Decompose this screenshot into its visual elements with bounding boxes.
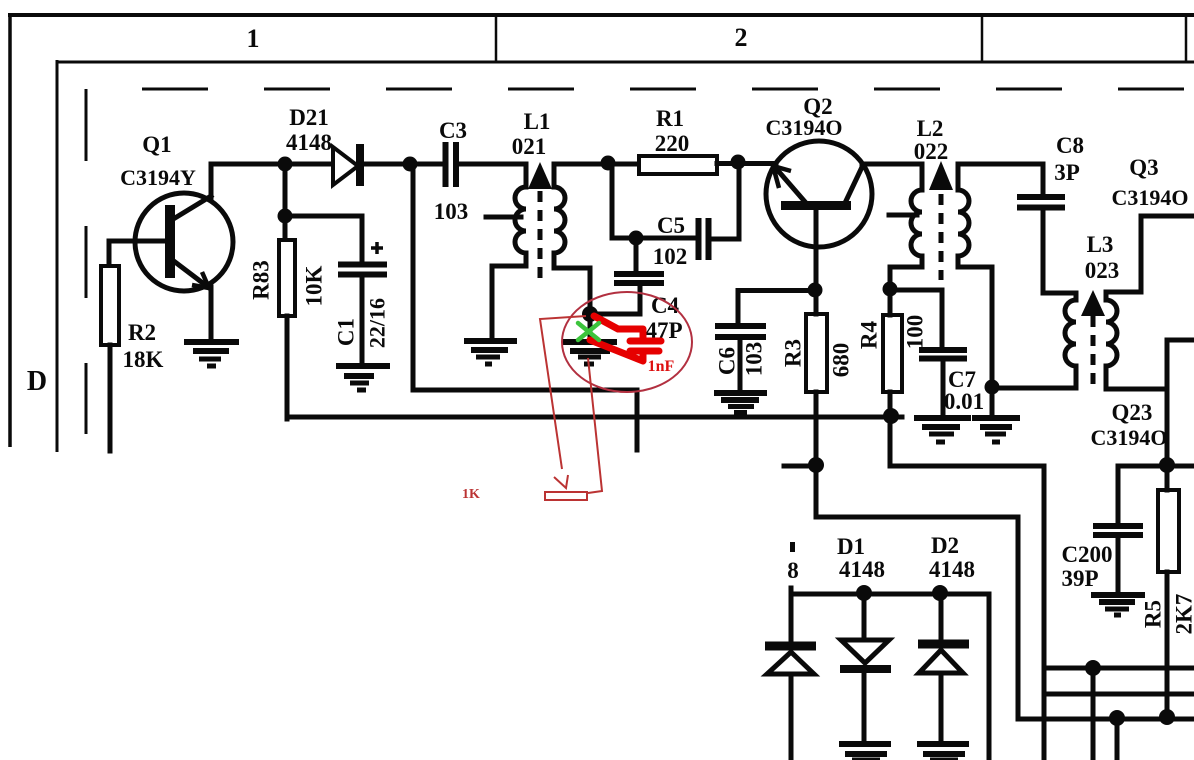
node dot R83 branch bbox=[278, 209, 293, 224]
svg-text:22/16: 22/16 bbox=[365, 298, 390, 348]
svg-text:2: 2 bbox=[735, 23, 748, 52]
svg-text:L1: L1 bbox=[524, 109, 551, 134]
label C3194O of Q3 bbox=[1112, 185, 1189, 210]
diode D1 leads bbox=[862, 593, 867, 742]
inner frame left line bbox=[56, 60, 59, 452]
wire L1 to R1 node bbox=[554, 162, 639, 167]
wire R2 bottom lead bbox=[108, 345, 113, 451]
ground under L1 secondary node bbox=[562, 342, 617, 364]
svg-text:C5: C5 bbox=[657, 213, 685, 238]
label 47P bbox=[645, 318, 682, 343]
resistor R4 bbox=[883, 315, 902, 392]
wire node down to ground bbox=[588, 314, 593, 341]
wire vertical from C3 node down to bus A bbox=[413, 164, 637, 450]
svg-text:680: 680 bbox=[829, 343, 854, 378]
svg-text:10K: 10K bbox=[302, 265, 327, 306]
diode D1 bbox=[840, 640, 891, 669]
svg-text:R5: R5 bbox=[1141, 600, 1166, 628]
svg-text:100: 100 bbox=[903, 315, 928, 350]
inductor L1 tuning arrow bbox=[528, 162, 552, 189]
text fragment cut label bbox=[787, 542, 799, 583]
wire R3 bottom lead through bus bbox=[814, 392, 819, 465]
border frame outer top line bbox=[8, 13, 1194, 17]
ground under C200 bbox=[1091, 595, 1145, 615]
wire C3 to L1 bbox=[459, 162, 526, 167]
label Q3 bbox=[1129, 155, 1158, 180]
svg-text:39P: 39P bbox=[1061, 566, 1098, 591]
wire R1 right to Q2 bbox=[717, 161, 776, 166]
ground under Q1 bbox=[184, 342, 239, 366]
wire L2 secondary to ground bbox=[990, 387, 995, 418]
wire L2 secondary top to C8 bbox=[958, 164, 1043, 194]
transistor Q2 bbox=[766, 141, 872, 247]
ground under C1 bbox=[336, 366, 390, 390]
wire L3 secondary top to Q3 bbox=[1106, 216, 1194, 292]
label R83 rotated bbox=[249, 260, 274, 300]
label C7 bbox=[948, 367, 976, 392]
wire Q23 emitter to edge bbox=[1167, 338, 1194, 343]
wire R3 top lead bbox=[814, 290, 819, 314]
svg-text:R4: R4 bbox=[857, 320, 882, 349]
capacitor C200 bbox=[1093, 526, 1143, 535]
node dot Q2 base bbox=[808, 283, 823, 298]
svg-text:R83: R83 bbox=[249, 260, 274, 300]
node dot L2 secondary bottom bbox=[985, 380, 1000, 395]
label 4148 under D21 bbox=[286, 130, 332, 155]
wire R4 bottom lead bbox=[888, 392, 893, 466]
label 100 rotated bbox=[903, 315, 928, 350]
capacitor C5 bbox=[699, 218, 709, 260]
resistor R2 bbox=[101, 266, 119, 345]
wire C5 loop right side bbox=[711, 162, 739, 239]
svg-text:103: 103 bbox=[742, 342, 767, 377]
svg-text:220: 220 bbox=[655, 131, 690, 156]
label 2K7 rotated bbox=[1172, 594, 1194, 635]
label 39P bbox=[1061, 566, 1098, 591]
svg-text:C200: C200 bbox=[1061, 542, 1112, 567]
wire C7 bottom lead bbox=[941, 360, 946, 417]
label C200 bbox=[1061, 542, 1112, 567]
wire C6 bottom lead bbox=[738, 339, 743, 392]
label 4148 under D1 bbox=[839, 557, 885, 582]
wire base node to C6 bbox=[738, 291, 815, 324]
wire Q1 collector bbox=[209, 164, 214, 199]
svg-text:8: 8 bbox=[787, 558, 799, 583]
ground under C7 on bus bbox=[914, 418, 971, 442]
red arrowhead bbox=[554, 475, 568, 488]
ground under L2 secondary bbox=[972, 418, 1020, 442]
wire Q1 base bbox=[109, 241, 165, 266]
diode DA leads bbox=[789, 588, 794, 760]
wire R83 bottom to bus bbox=[285, 316, 290, 419]
label 0.01 bbox=[944, 389, 984, 414]
capacitor C8 bbox=[1017, 197, 1065, 208]
wire R4 branch to lower right bbox=[890, 466, 1044, 760]
wire R5 bottom lead bbox=[1165, 572, 1170, 717]
L2 tap stub bbox=[889, 213, 917, 218]
transistor Q1 bbox=[135, 193, 233, 291]
inductor L2 left winding bbox=[890, 164, 922, 289]
svg-text:1: 1 bbox=[247, 24, 260, 53]
wire Q2 collector to L2 bbox=[862, 162, 922, 167]
wire L2 secondary bottom to L3 bbox=[992, 386, 1076, 391]
label R3 rotated bbox=[781, 339, 806, 367]
capacitor C6 bbox=[715, 326, 766, 337]
wire node to right edge bbox=[1167, 464, 1194, 469]
red annotation line to 1K right bbox=[588, 358, 602, 493]
svg-text:L2: L2 bbox=[917, 116, 944, 141]
label C4 bbox=[651, 293, 680, 318]
label C3194O of Q23 bbox=[1091, 425, 1168, 450]
ground under D1 bbox=[839, 744, 891, 760]
svg-text:C6: C6 bbox=[715, 347, 740, 375]
border frame outer left line bbox=[8, 13, 12, 447]
svg-text:D2: D2 bbox=[931, 533, 959, 558]
svg-text:R3: R3 bbox=[781, 339, 806, 367]
label R1 bbox=[656, 106, 684, 131]
label D21 bbox=[289, 105, 329, 130]
diode D2 bbox=[918, 644, 969, 673]
svg-text:102: 102 bbox=[653, 244, 688, 269]
label D2 bbox=[931, 533, 959, 558]
resistor R83 bbox=[279, 240, 295, 316]
svg-text:R1: R1 bbox=[656, 106, 684, 131]
label Q2 bbox=[803, 94, 832, 119]
label C8 bbox=[1056, 133, 1084, 158]
label 10K rotated bbox=[302, 265, 327, 306]
svg-text:103: 103 bbox=[434, 199, 469, 224]
svg-text:4148: 4148 bbox=[839, 557, 885, 582]
svg-text:L3: L3 bbox=[1087, 232, 1114, 257]
label L2 bbox=[917, 116, 944, 141]
svg-text:C3194Y: C3194Y bbox=[120, 165, 196, 190]
label 18K bbox=[123, 347, 164, 372]
label R4 rotated bbox=[857, 320, 882, 349]
svg-text:Q3: Q3 bbox=[1129, 155, 1158, 180]
label 023 bbox=[1085, 258, 1120, 283]
inductor L2 tuning arrow bbox=[929, 161, 953, 190]
svg-text:Q1: Q1 bbox=[142, 132, 171, 157]
diode D2 leads bbox=[939, 593, 944, 742]
svg-text:R2: R2 bbox=[128, 320, 156, 345]
label 220 bbox=[655, 131, 690, 156]
ground under D2 bbox=[917, 744, 969, 760]
svg-text:C1: C1 bbox=[334, 318, 359, 346]
label C6 rotated bbox=[715, 347, 740, 375]
svg-text:4148: 4148 bbox=[286, 130, 332, 155]
node dot on line E right bbox=[1159, 709, 1175, 725]
red label 1nF bbox=[648, 358, 675, 375]
node dot Q23/R5/C200 bbox=[1159, 457, 1175, 473]
node dot bus R4 bbox=[883, 408, 899, 424]
svg-text:022: 022 bbox=[914, 139, 949, 164]
label L1 bbox=[524, 109, 551, 134]
inductor L1 left winding bbox=[492, 164, 526, 341]
wire C8 bottom to L3 top bbox=[1043, 210, 1076, 293]
node dot D2 on bus bbox=[932, 585, 948, 601]
wire C7 branch top bbox=[890, 290, 942, 348]
wire Q23 collector vertical bbox=[1165, 340, 1170, 465]
row letter D bbox=[27, 366, 47, 397]
wire Q1 emitter down bbox=[209, 287, 214, 341]
svg-text:3P: 3P bbox=[1054, 160, 1080, 185]
node dot C5/C4 branch bbox=[629, 231, 644, 246]
wire line C bbox=[1044, 666, 1194, 671]
svg-text:D: D bbox=[27, 366, 47, 397]
wire R5 top lead bbox=[1165, 465, 1170, 490]
inductor L3 core dashed bbox=[1091, 316, 1096, 384]
svg-text:2K7: 2K7 bbox=[1172, 594, 1194, 635]
inductor L3 left winding bbox=[1065, 293, 1076, 388]
svg-text:C8: C8 bbox=[1056, 133, 1084, 158]
red ellipse annotation bbox=[562, 292, 692, 392]
wire C200 bottom lead bbox=[1116, 537, 1121, 594]
label Q23 bbox=[1112, 400, 1153, 425]
resistor R3 bbox=[806, 314, 827, 392]
red label 1K bbox=[462, 487, 480, 502]
title strip divider tick 3 bbox=[1185, 14, 1188, 63]
svg-text:C3194O: C3194O bbox=[766, 115, 843, 140]
resistor R1 bbox=[639, 156, 717, 174]
title strip inner line / inner frame top bbox=[57, 61, 1194, 64]
label R5 rotated bbox=[1141, 600, 1166, 628]
label Q1 bbox=[142, 132, 171, 157]
inductor L3 tuning arrow bbox=[1081, 290, 1105, 316]
node dot D1 on bus bbox=[856, 585, 872, 601]
wire C4 bottom lead bbox=[638, 286, 643, 314]
diode DA bbox=[765, 646, 816, 674]
label D1 bbox=[837, 534, 865, 559]
red capacitor annotation 1nF bbox=[590, 316, 661, 361]
ground under C6 bbox=[714, 393, 767, 413]
resistor R5 bbox=[1158, 490, 1179, 572]
svg-text:D21: D21 bbox=[289, 105, 329, 130]
wire C1 bottom lead bbox=[360, 277, 365, 366]
dashed module boundary vertical bbox=[85, 89, 88, 434]
node dot left of R1 bbox=[601, 156, 616, 171]
wire vertical below line E bbox=[1115, 718, 1120, 760]
svg-text:D1: D1 bbox=[837, 534, 865, 559]
label 021 bbox=[512, 134, 547, 159]
node dot on line E left bbox=[1109, 710, 1125, 726]
label C3194Y bbox=[120, 165, 196, 190]
node dot L1 secondary bottom bbox=[582, 306, 598, 322]
zone number 1 bbox=[247, 24, 260, 53]
diode bus wire bbox=[792, 594, 989, 760]
label C1 rotated bbox=[334, 318, 359, 346]
wire vertical from line C node bbox=[1091, 668, 1096, 760]
node dot on line C bbox=[1085, 660, 1101, 676]
inductor L1 right winding bbox=[554, 164, 590, 314]
wire line D bbox=[1044, 692, 1194, 697]
green X mark bbox=[578, 323, 599, 340]
capacitor C1 electrolytic bbox=[338, 242, 387, 275]
red 1K resistor rectangle bbox=[545, 492, 587, 500]
label 22/16 rotated bbox=[365, 298, 390, 348]
label R2 bbox=[128, 320, 156, 345]
node dot right of R1 bbox=[731, 155, 746, 170]
wire stub left of node bbox=[784, 464, 816, 469]
ground under L1 bbox=[464, 341, 517, 364]
label 022 bbox=[914, 139, 949, 164]
wire Q2 base lead bbox=[814, 210, 819, 290]
svg-text:023: 023 bbox=[1085, 258, 1120, 283]
wire main collector rail to D21 bbox=[211, 162, 333, 167]
label 3P bbox=[1054, 160, 1080, 185]
wire branch down from D21 anode node bbox=[283, 164, 288, 240]
zone number 2 bbox=[735, 23, 748, 52]
inductor L2 core dashed bbox=[939, 194, 944, 280]
wire C4 top lead bbox=[634, 238, 639, 271]
label 4148 under D2 bbox=[929, 557, 975, 582]
wire to C1 top bbox=[285, 216, 362, 262]
dashed module boundary horizontal bbox=[86, 88, 1194, 91]
label 680 rotated bbox=[829, 343, 854, 378]
svg-text:Q23: Q23 bbox=[1112, 400, 1153, 425]
node dot at D21 branch bbox=[278, 157, 293, 172]
svg-text:1K: 1K bbox=[462, 487, 480, 502]
svg-text:1nF: 1nF bbox=[648, 358, 675, 375]
label 103 under C3 bbox=[434, 199, 469, 224]
svg-text:C3194O: C3194O bbox=[1091, 425, 1168, 450]
svg-text:18K: 18K bbox=[123, 347, 164, 372]
label L3 bbox=[1087, 232, 1114, 257]
svg-text:C3: C3 bbox=[439, 118, 467, 143]
label 103 rotated bbox=[742, 342, 767, 377]
wire node to C4 bottom bbox=[590, 312, 640, 317]
title strip divider tick 2 bbox=[981, 14, 984, 63]
label C3194O of Q2 bbox=[766, 115, 843, 140]
wire node to C200 bbox=[1118, 466, 1167, 524]
node dot R3 lower branch bbox=[808, 457, 824, 473]
svg-text:0.01: 0.01 bbox=[944, 389, 984, 414]
wire node down and right to bottom right corner bbox=[816, 465, 1194, 719]
capacitor C7 bbox=[919, 350, 967, 359]
wire D21 to C3 bbox=[364, 162, 443, 167]
svg-text:4148: 4148 bbox=[929, 557, 975, 582]
label 102 bbox=[653, 244, 688, 269]
inductor L2 right winding bbox=[958, 164, 992, 387]
red annotation line to 1K left bbox=[540, 316, 586, 469]
ground bus B bbox=[287, 415, 902, 420]
svg-text:C3194O: C3194O bbox=[1112, 185, 1189, 210]
wire C5 loop left side bbox=[612, 164, 697, 238]
inductor L1 core dashed bbox=[538, 191, 543, 278]
label C5 bbox=[657, 213, 685, 238]
node dot before C3 bbox=[403, 157, 418, 172]
svg-text:021: 021 bbox=[512, 134, 547, 159]
capacitor C3 bbox=[446, 142, 457, 187]
label C3 bbox=[439, 118, 467, 143]
inductor L3 right winding bbox=[1106, 293, 1167, 389]
wire R4 top lead bbox=[888, 289, 893, 315]
L1 tap stub bbox=[486, 215, 521, 220]
capacitor C4 bbox=[614, 274, 664, 283]
node dot L2 bottom / R4 top bbox=[883, 282, 898, 297]
title strip divider tick 1 bbox=[495, 16, 498, 62]
diode D21 bbox=[333, 144, 364, 186]
